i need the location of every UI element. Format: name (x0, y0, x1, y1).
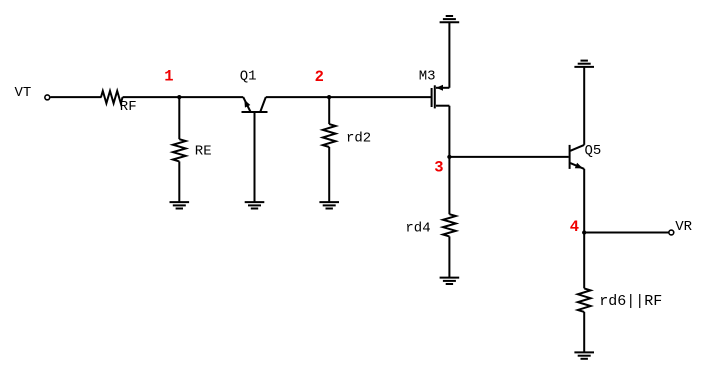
svg-text:1: 1 (164, 67, 173, 85)
svg-text:RE: RE (195, 144, 212, 160)
svg-text:rd4: rd4 (405, 221, 430, 237)
svg-text:VT: VT (15, 85, 32, 101)
svg-text:Q1: Q1 (240, 69, 257, 85)
svg-text:2: 2 (315, 68, 324, 86)
svg-text:rd2: rd2 (346, 130, 371, 146)
svg-text:M3: M3 (419, 69, 436, 85)
svg-text:RF: RF (120, 99, 137, 115)
svg-text:VR: VR (675, 219, 692, 235)
svg-text:3: 3 (434, 159, 443, 177)
svg-text:rd6||RF: rd6||RF (599, 293, 662, 310)
svg-text:4: 4 (570, 218, 579, 236)
svg-text:Q5: Q5 (585, 143, 602, 159)
